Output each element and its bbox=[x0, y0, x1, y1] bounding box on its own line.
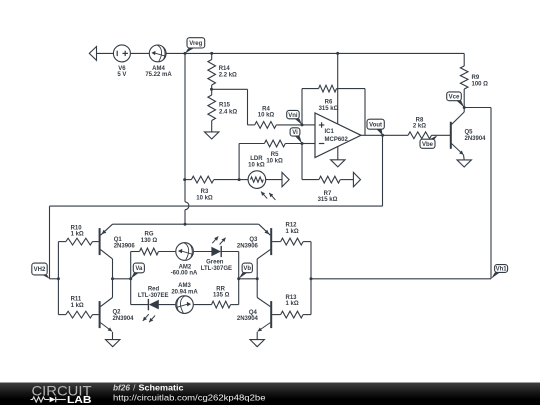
CircuitLab logo bbox=[31, 383, 92, 405]
svg-text:VH2: VH2 bbox=[34, 267, 46, 273]
svg-text:10 kΩ: 10 kΩ bbox=[266, 158, 283, 164]
wire (top rail) bbox=[185, 52, 464, 54]
ground (left of V6) bbox=[89, 47, 113, 61]
svg-text:130 Ω: 130 Ω bbox=[141, 238, 158, 244]
node Vb bbox=[237, 263, 259, 280]
node Va bbox=[111, 263, 144, 280]
svg-text:Vout: Vout bbox=[369, 122, 382, 128]
wire (feedback left) bbox=[301, 89, 303, 125]
resistor R9 bbox=[460, 53, 488, 107]
footer bar bbox=[0, 383, 540, 405]
svg-text:MCP602: MCP602 bbox=[325, 137, 349, 143]
svg-text:315 kΩ: 315 kΩ bbox=[318, 197, 338, 203]
svg-text:2.4 kΩ: 2.4 kΩ bbox=[219, 109, 237, 115]
LED Red LTL-307EE bbox=[131, 287, 176, 323]
voltage source V6 bbox=[113, 45, 130, 78]
wire (R5 to LDR vertical) bbox=[238, 144, 240, 180]
svg-text:R11: R11 bbox=[71, 297, 82, 303]
ammeter AM2 bbox=[171, 243, 198, 277]
svg-text:RG: RG bbox=[145, 231, 154, 237]
op-amp IC1 bbox=[302, 113, 361, 158]
resistor R12 bbox=[272, 222, 311, 278]
svg-text:2N3904: 2N3904 bbox=[237, 316, 259, 322]
resistor R3 bbox=[183, 176, 239, 201]
ground (below Q2) bbox=[106, 340, 120, 347]
svg-text:R12: R12 bbox=[286, 222, 298, 228]
wire (Vreg vertical, hops over rail) bbox=[185, 53, 189, 224]
ground (below Q4) bbox=[250, 340, 264, 347]
footer url text bbox=[113, 394, 266, 403]
LED Green LTL-307GE bbox=[194, 236, 239, 271]
wire (feedback right) bbox=[364, 89, 366, 136]
svg-text:AM2: AM2 bbox=[179, 264, 192, 270]
wire (Vout vertical) bbox=[382, 135, 384, 206]
svg-text:AM3: AM3 bbox=[178, 283, 191, 289]
svg-text:R13: R13 bbox=[286, 295, 298, 301]
svg-text:Q5: Q5 bbox=[465, 130, 474, 136]
ground (below R15) bbox=[205, 132, 219, 139]
ammeter AM3 bbox=[171, 283, 198, 313]
svg-text:LTL-307EE: LTL-307EE bbox=[138, 293, 169, 299]
node Vi bbox=[290, 128, 303, 145]
svg-text:10 kΩ: 10 kΩ bbox=[248, 162, 265, 168]
svg-text:LAB: LAB bbox=[67, 395, 92, 405]
ground (below Q5) bbox=[457, 160, 471, 167]
wire (base splitter vertical) bbox=[57, 242, 59, 315]
node Vni bbox=[287, 110, 304, 126]
node Vh1 bbox=[491, 265, 508, 279]
svg-text:2N3906: 2N3906 bbox=[114, 243, 136, 249]
transistor Q4 bbox=[237, 279, 271, 340]
svg-text:Vni: Vni bbox=[288, 113, 298, 119]
wire (Va vertical) bbox=[130, 252, 132, 305]
svg-text:http://circuitlab.com/cg262kp4: http://circuitlab.com/cg262kp48q2be bbox=[113, 394, 266, 403]
wire (left vertical) bbox=[49, 206, 51, 279]
ammeter AM4 bbox=[145, 45, 172, 78]
wire bbox=[130, 52, 149, 54]
node VH2 bbox=[32, 263, 50, 279]
svg-text:1 kΩ: 1 kΩ bbox=[71, 303, 84, 309]
svg-text:Q2: Q2 bbox=[113, 310, 122, 316]
svg-text:AM4: AM4 bbox=[152, 66, 165, 72]
node (R14/R15 junction) bbox=[210, 88, 213, 91]
svg-text:75.22 mA: 75.22 mA bbox=[145, 72, 172, 78]
svg-text:Q3: Q3 bbox=[249, 237, 258, 243]
svg-text:R4: R4 bbox=[262, 106, 270, 112]
resistor RR bbox=[194, 286, 239, 308]
svg-text:20.94 mA: 20.94 mA bbox=[171, 290, 198, 296]
wire (Vout to VH2 rail) bbox=[50, 205, 383, 207]
svg-text:Vi: Vi bbox=[292, 130, 298, 136]
svg-text:Vbe: Vbe bbox=[422, 142, 434, 148]
svg-text:2 kΩ: 2 kΩ bbox=[413, 124, 426, 130]
svg-text:R8: R8 bbox=[416, 117, 424, 123]
svg-text:LTL-307GE: LTL-307GE bbox=[201, 266, 232, 272]
resistor R4 bbox=[248, 106, 303, 128]
resistor R6 bbox=[302, 85, 365, 112]
svg-text:V6: V6 bbox=[118, 66, 126, 72]
resistor R5 bbox=[239, 140, 302, 164]
svg-text:-60.00 nA: -60.00 nA bbox=[171, 271, 198, 277]
transistor Q1 bbox=[100, 224, 136, 279]
wire bbox=[212, 89, 248, 125]
node Vce bbox=[447, 92, 466, 109]
ground (below op-amp) bbox=[331, 146, 345, 167]
ground (right of R7) bbox=[353, 172, 360, 186]
node (R3/LDR junction) bbox=[238, 178, 241, 181]
svg-text:Schematic: Schematic bbox=[139, 382, 184, 392]
svg-text:R9: R9 bbox=[472, 75, 480, 81]
wire (op-amp V+ supply) bbox=[336, 52, 339, 124]
node Vreg bbox=[184, 38, 205, 55]
svg-text:100 Ω: 100 Ω bbox=[472, 81, 489, 87]
resistor R7 bbox=[302, 144, 353, 204]
resistor RG bbox=[131, 231, 176, 255]
wire (op-amp output) bbox=[361, 134, 383, 136]
transistor Q5 bbox=[451, 108, 486, 160]
svg-text:2N3904: 2N3904 bbox=[465, 136, 487, 142]
wire bbox=[166, 52, 185, 54]
svg-text:LDR: LDR bbox=[250, 156, 263, 162]
transistor Q3 bbox=[237, 224, 271, 279]
footer title text bbox=[113, 382, 184, 392]
svg-text:2.2 kΩ: 2.2 kΩ bbox=[219, 73, 237, 79]
svg-text:Vce: Vce bbox=[449, 95, 460, 101]
svg-text:2N3906: 2N3906 bbox=[237, 244, 259, 250]
svg-text:10 kΩ: 10 kΩ bbox=[196, 196, 213, 202]
svg-text:Q4: Q4 bbox=[249, 310, 258, 316]
svg-text:Green: Green bbox=[206, 259, 224, 265]
transistor Q2 bbox=[100, 279, 135, 340]
svg-text:R3: R3 bbox=[201, 189, 209, 195]
wire (Vce to right edge) bbox=[464, 108, 491, 279]
wire bbox=[50, 277, 60, 280]
resistor R11 bbox=[58, 297, 98, 318]
svg-text:R6: R6 bbox=[325, 99, 333, 105]
svg-text:Vreg: Vreg bbox=[189, 41, 202, 47]
svg-text:Vb: Vb bbox=[243, 266, 251, 272]
svg-text:R15: R15 bbox=[219, 103, 231, 109]
svg-text:R5: R5 bbox=[271, 152, 279, 158]
photoresistor LDR bbox=[239, 156, 282, 200]
ground (right of LDR) bbox=[282, 172, 289, 186]
node Vbe bbox=[420, 135, 438, 148]
svg-text:R7: R7 bbox=[324, 191, 332, 197]
svg-text:135 Ω: 135 Ω bbox=[213, 293, 230, 299]
svg-text:RR: RR bbox=[216, 286, 225, 292]
svg-text:2N3904: 2N3904 bbox=[113, 316, 135, 322]
node Vout bbox=[367, 119, 384, 137]
wire (emitter rail) bbox=[113, 223, 259, 226]
resistor R10 bbox=[58, 225, 98, 245]
svg-text:bf26: bf26 bbox=[113, 382, 130, 392]
svg-text:Q1: Q1 bbox=[114, 237, 123, 243]
svg-text:10 kΩ: 10 kΩ bbox=[258, 113, 275, 119]
svg-text:1 kΩ: 1 kΩ bbox=[71, 232, 84, 238]
resistor R8 bbox=[383, 117, 450, 138]
resistor R13 bbox=[272, 279, 311, 318]
svg-text:Red: Red bbox=[148, 287, 160, 293]
svg-text:R14: R14 bbox=[219, 66, 231, 72]
svg-text:Va: Va bbox=[135, 266, 143, 272]
svg-text:Vh1: Vh1 bbox=[496, 267, 508, 273]
wire (Vb vertical) bbox=[238, 252, 240, 305]
svg-text:IC1: IC1 bbox=[325, 129, 335, 135]
svg-text:315 kΩ: 315 kΩ bbox=[319, 106, 339, 112]
svg-text:1 kΩ: 1 kΩ bbox=[286, 229, 299, 235]
resistor R15 bbox=[208, 89, 237, 132]
svg-text:1 kΩ: 1 kΩ bbox=[286, 301, 299, 307]
resistor R14 bbox=[208, 52, 237, 89]
wire (to Vh1) bbox=[310, 277, 492, 280]
svg-text:R10: R10 bbox=[71, 225, 83, 231]
svg-text:5 V: 5 V bbox=[117, 72, 126, 78]
